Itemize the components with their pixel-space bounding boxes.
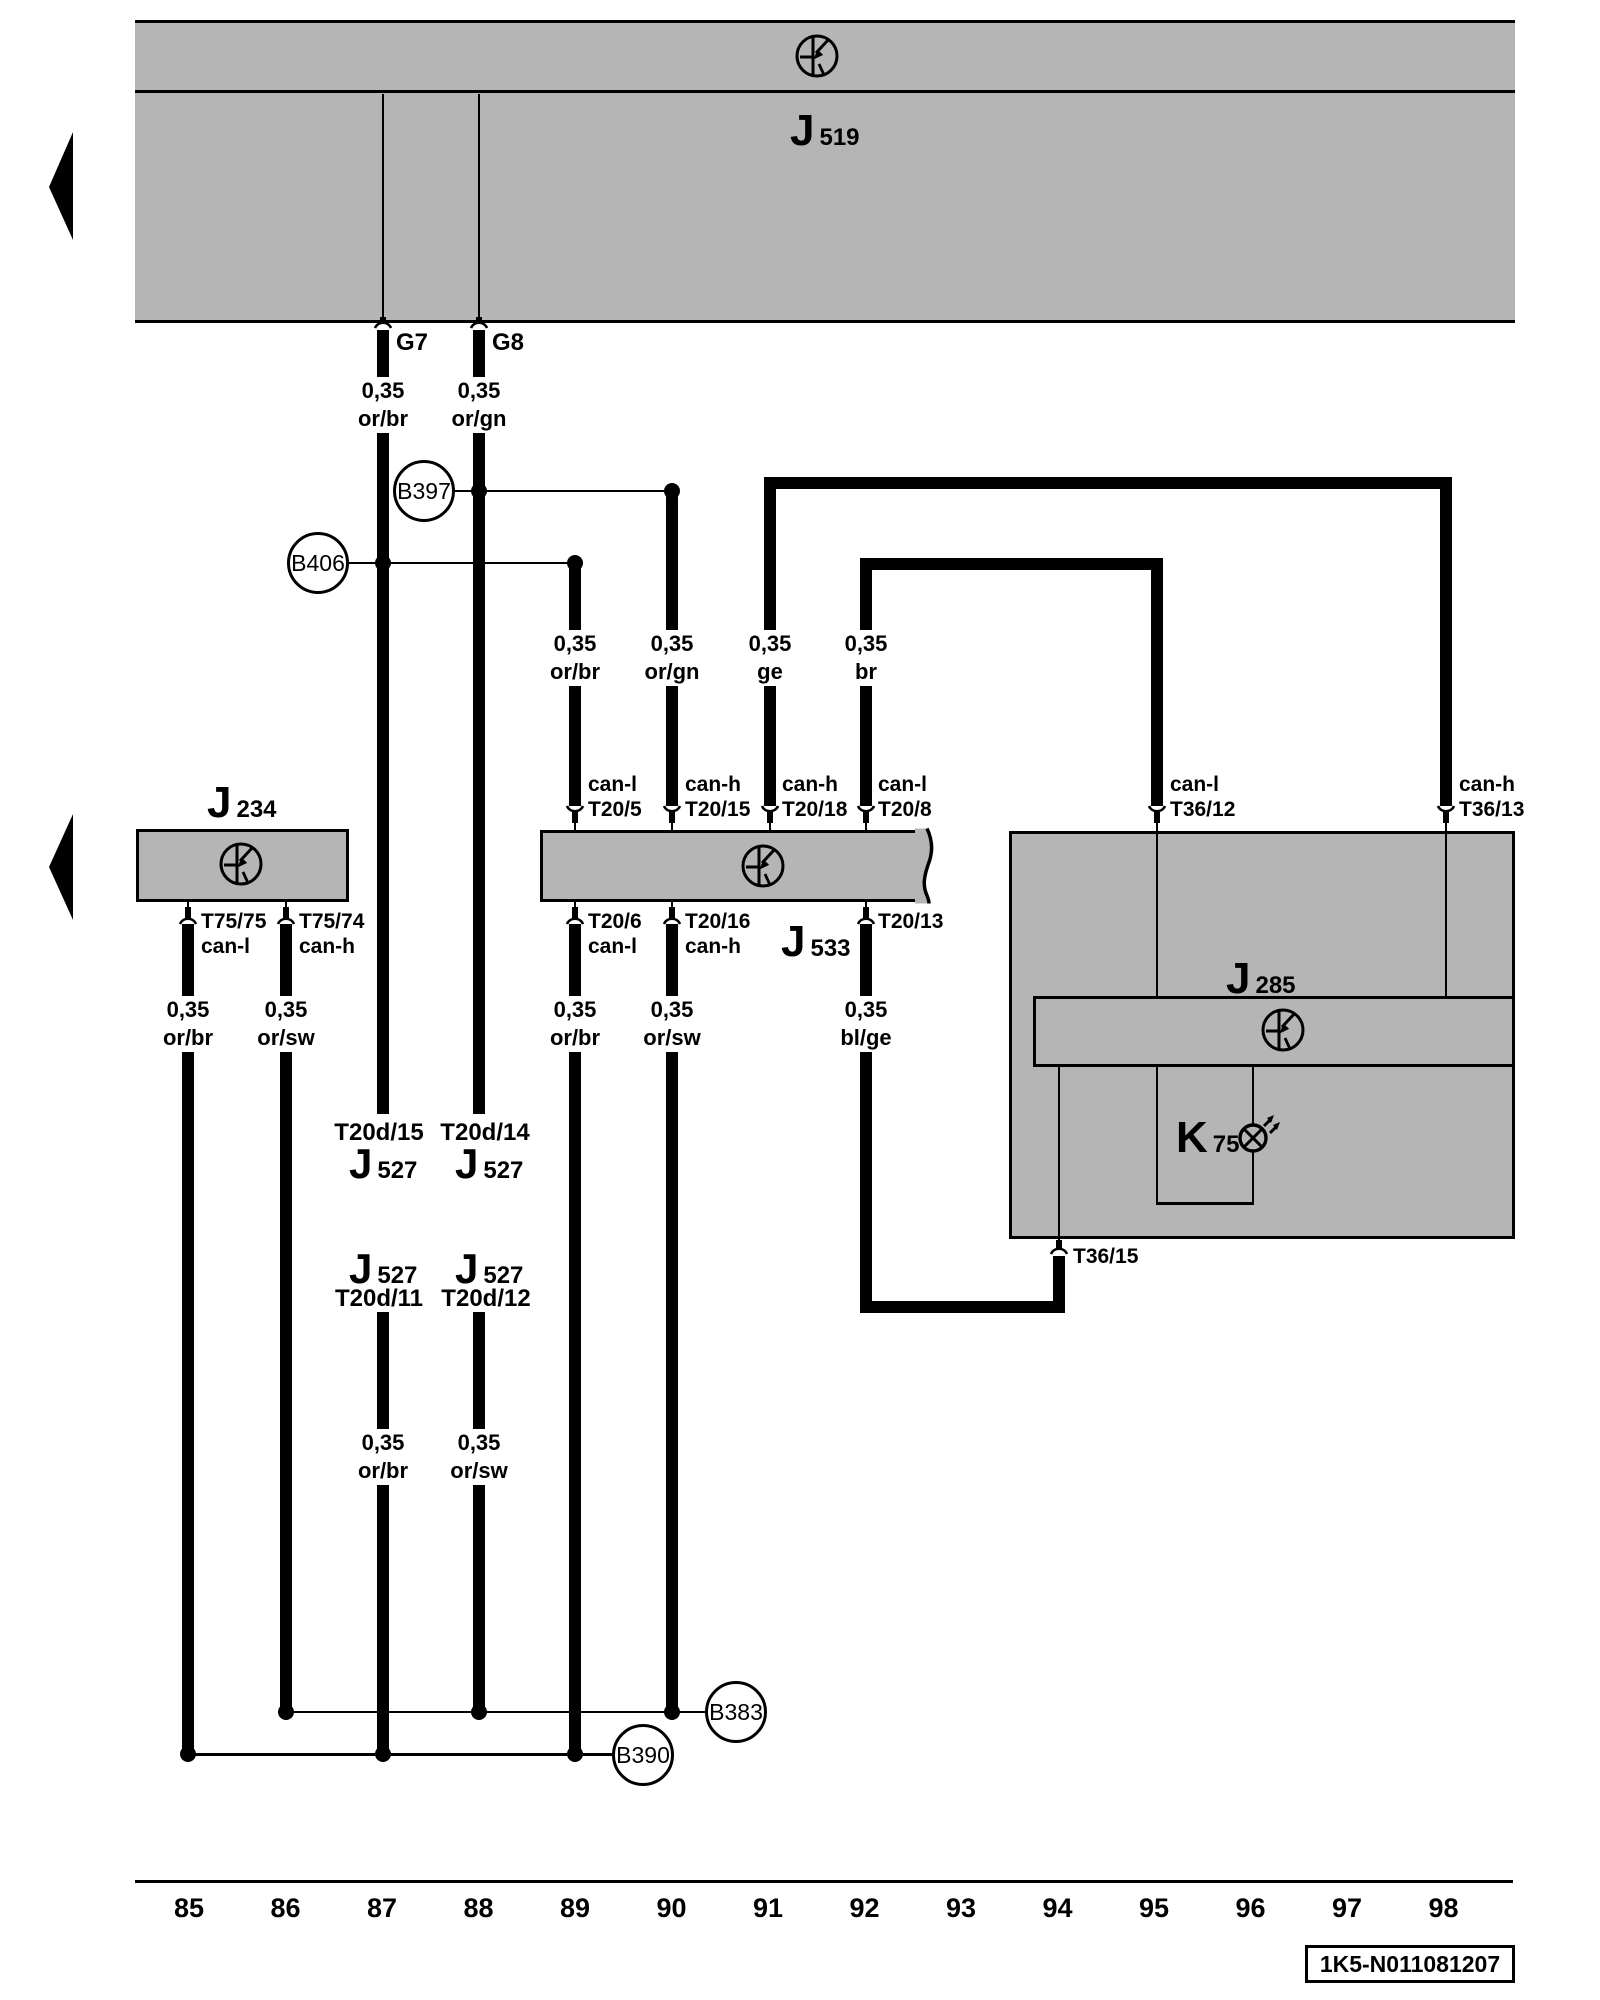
lead T36/15 inside J285 [1058, 1065, 1060, 1240]
wire label 0,35 or/gn (track 90) [643, 630, 702, 686]
wire 0,35 br vertical right into J285 T36/12 [1151, 558, 1163, 806]
pin arrow J533 T20/18 [760, 804, 780, 830]
lamp circuit lead left (from electronics down) [1156, 1065, 1158, 1205]
pin label G8 [492, 331, 524, 355]
track number 89 [560, 1894, 590, 1922]
pin label T20/6 can-l [588, 909, 642, 959]
track number 92 [849, 1894, 879, 1922]
junction dot track88/B397 [471, 483, 487, 499]
wire label 0,35 or/sw (track 86) [255, 996, 316, 1052]
pin arrow J285 T36/12 [1147, 804, 1167, 830]
control unit J285 instrument cluster box [1009, 831, 1515, 1239]
wire 0,35 or/sw from J234 T75/74 down (track 86) [280, 924, 292, 1712]
pin arrow J285 T36/15 (exit) [1049, 1240, 1069, 1256]
wire 0,35 or/br from J234 T75/75 down (track 85) [182, 924, 194, 1754]
lamp circuit lead right lower (K75 down) [1252, 1151, 1254, 1205]
pin label J527 T20d/11 [335, 1285, 423, 1313]
J533 diagnosis K symbol [741, 844, 785, 888]
pin label G7 [396, 331, 428, 355]
label J527 (upper left) [349, 1146, 417, 1189]
track number 87 [367, 1894, 397, 1922]
pin G8 exit connector [469, 315, 489, 330]
J519 inner connector strip line [135, 90, 1515, 93]
splice connection line B390 [188, 1753, 612, 1756]
track number 94 [1042, 1894, 1072, 1922]
splice B406 circle [287, 532, 349, 594]
pin label can-l T20/8 [878, 772, 932, 822]
track number 86 [270, 1894, 300, 1922]
junction dot track90/B383 [664, 1704, 680, 1720]
pin label T75/75 can-l [201, 909, 266, 959]
track number 90 [656, 1894, 686, 1922]
pin label T36/15 [1073, 1245, 1138, 1269]
diagram code box 1K5-N011081207 [1305, 1945, 1515, 1983]
wire 0,35 ge can-h J533 T20/18 to J285 T36/13 vertical left (track 91) [764, 477, 776, 806]
wire label 0,35 bl/ge (track 92 lower) [838, 996, 893, 1052]
wire label 0,35 br (track 92) [843, 630, 890, 686]
lamp K75 symbol with light arrows [1221, 1106, 1285, 1170]
wire label 0,35 ge (track 91) [747, 630, 794, 686]
J285 diagnosis K symbol [1261, 1008, 1305, 1052]
label J519 [790, 113, 860, 156]
label J527 (lower left) [349, 1251, 417, 1294]
wire label 0,35 or/br (track 89) [548, 630, 602, 686]
pin arrow J533 T20/16 [662, 900, 682, 926]
track number 98 [1428, 1894, 1458, 1922]
track number 85 [174, 1894, 204, 1922]
control unit J533 data bus diagnostic interface box (torn right edge) [540, 830, 927, 902]
wire label 0,35 or/br (G7) [356, 377, 410, 433]
pin label can-h T20/15 [685, 772, 750, 822]
junction dot track85/B390 [180, 1746, 196, 1762]
pin arrow J285 T36/13 [1436, 804, 1456, 830]
track number 88 [463, 1894, 493, 1922]
lead from T36/13 to inner electronics [1445, 834, 1447, 996]
junction dot track87/B406 [375, 555, 391, 571]
wire 0,35 bl/ge from J533 T20/13 down (track 92) [860, 924, 872, 1313]
wire lead G8 inside J519 [478, 94, 480, 323]
pin arrow J533 T20/13 [856, 900, 876, 926]
pin arrow J533 T20/6 [565, 900, 585, 926]
pin arrow J234 T75/75 [178, 900, 198, 926]
pin label T75/74 can-h [299, 909, 364, 959]
lamp circuit lead right upper (electronics to K75) [1252, 1065, 1254, 1126]
lead from T36/12 to inner electronics [1156, 834, 1158, 996]
label J527 (lower right) [455, 1251, 523, 1294]
pin label J527 T20d/12 [441, 1285, 530, 1313]
wire label 0,35 or/br (track 89 lower) [548, 996, 602, 1052]
splice connection line B397 [455, 490, 672, 493]
wire 0,35 ge horizontal run [764, 477, 1452, 489]
wire lead G7 inside J519 [382, 94, 384, 323]
splice connection line B383 [286, 1711, 705, 1714]
wire 0,35 or/br to J533 T20/5 (track 89) [569, 563, 581, 806]
track number 97 [1332, 1894, 1362, 1922]
control unit J519 onboard supply control unit box [135, 20, 1515, 323]
junction dot track89 top/B406 [567, 555, 583, 571]
pin arrow J533 T20/15 [662, 804, 682, 830]
junction dot track88/B383 [471, 1704, 487, 1720]
wire 0,35 br horizontal run [860, 558, 1163, 570]
junction dot track89/B390 [567, 1746, 583, 1762]
splice B390 circle [612, 1724, 674, 1786]
current flow direction triangle lower [47, 812, 75, 922]
wire bl/ge horizontal run to T36/15 [860, 1301, 1065, 1313]
label J285 [1226, 961, 1296, 1004]
wire 0,35 or/br from J533 T20/6 down (track 89) [569, 924, 581, 1754]
pin label can-l T36/12 [1170, 772, 1235, 822]
wire label 0,35 or/br (track 87 lower) [356, 1429, 410, 1485]
wire 0,35 or/gn from G8 down (track 88) [473, 330, 485, 1114]
lamp circuit bottom lead [1156, 1202, 1254, 1205]
wire 0,35 or/br from J527 T20d/11 down (track 87 lower) [377, 1312, 389, 1754]
track number 96 [1235, 1894, 1265, 1922]
splice connection line B406 [349, 562, 575, 565]
pin label can-l T20/5 [588, 772, 642, 822]
label J533 [781, 924, 851, 967]
pin arrow J533 T20/8 [856, 804, 876, 830]
track number 95 [1139, 1894, 1169, 1922]
track ruler line [135, 1880, 1513, 1883]
wire bl/ge vertical up to J285 T36/15 [1053, 1256, 1065, 1313]
J234 diagnosis K symbol [219, 842, 263, 886]
wire label 0,35 or/gn (G8) [450, 377, 509, 433]
wire 0,35 or/sw from J527 T20d/12 down (track 88 lower) [473, 1312, 485, 1712]
junction dot track90 top/B397 [664, 483, 680, 499]
J519 diagnosis K symbol [795, 34, 839, 78]
wire 0,35 or/gn to J533 T20/15 (track 90) [666, 489, 678, 806]
label J234 [207, 785, 277, 828]
wire 0,35 or/br from G7 down (track 87) [377, 330, 389, 1114]
pin label J527 T20d/14 [440, 1119, 529, 1147]
wire 0,35 or/sw from J533 T20/16 down (track 90) [666, 924, 678, 1712]
splice B383 circle [705, 1681, 767, 1743]
label K75 [1176, 1120, 1239, 1163]
wire 0,35 br can-l J533 T20/8 to J285 T36/12 vertical left (track 92) [860, 558, 872, 806]
track number 93 [946, 1894, 976, 1922]
pin label J527 T20d/15 [334, 1119, 423, 1147]
pin label can-h T20/18 [782, 772, 847, 822]
J533 torn edge [915, 827, 945, 905]
splice B397 circle [393, 460, 455, 522]
pin G7 exit connector [373, 315, 393, 330]
wire label 0,35 or/sw (track 90 lower) [641, 996, 702, 1052]
junction dot track87/B390 [375, 1746, 391, 1762]
pin label T20/13 [878, 909, 943, 934]
wire label 0,35 or/sw (track 88 lower) [448, 1429, 509, 1485]
track number 91 [753, 1894, 783, 1922]
pin label T20/16 can-h [685, 909, 750, 959]
wire 0,35 ge vertical right into J285 T36/13 [1440, 477, 1452, 806]
pin arrow J234 T75/74 [276, 900, 296, 926]
pin label can-h T36/13 [1459, 772, 1524, 822]
control unit J234 airbag box [136, 829, 349, 902]
current flow direction triangle upper [47, 130, 75, 242]
wire label 0,35 or/br (track 85) [161, 996, 215, 1052]
pin arrow J533 T20/5 [565, 804, 585, 830]
label J527 (upper right) [455, 1146, 523, 1189]
inner electronics box of J285 [1033, 996, 1515, 1067]
junction dot track86/B383 [278, 1704, 294, 1720]
